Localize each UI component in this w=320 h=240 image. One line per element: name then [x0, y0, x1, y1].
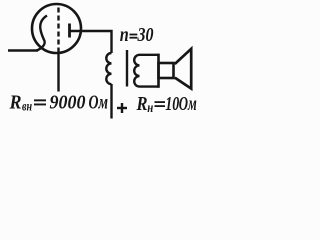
svg-text:н: н — [147, 100, 153, 115]
svg-text:Ом: Ом — [89, 92, 109, 114]
svg-text:Ом: Ом — [179, 93, 197, 115]
svg-text:n: n — [120, 24, 129, 46]
svg-text:9000: 9000 — [50, 92, 86, 114]
svg-text:R: R — [136, 93, 148, 115]
svg-text:30: 30 — [137, 24, 154, 46]
svg-text:R: R — [9, 92, 22, 114]
svg-text:вн: вн — [22, 99, 32, 114]
svg-text:10: 10 — [165, 93, 179, 115]
